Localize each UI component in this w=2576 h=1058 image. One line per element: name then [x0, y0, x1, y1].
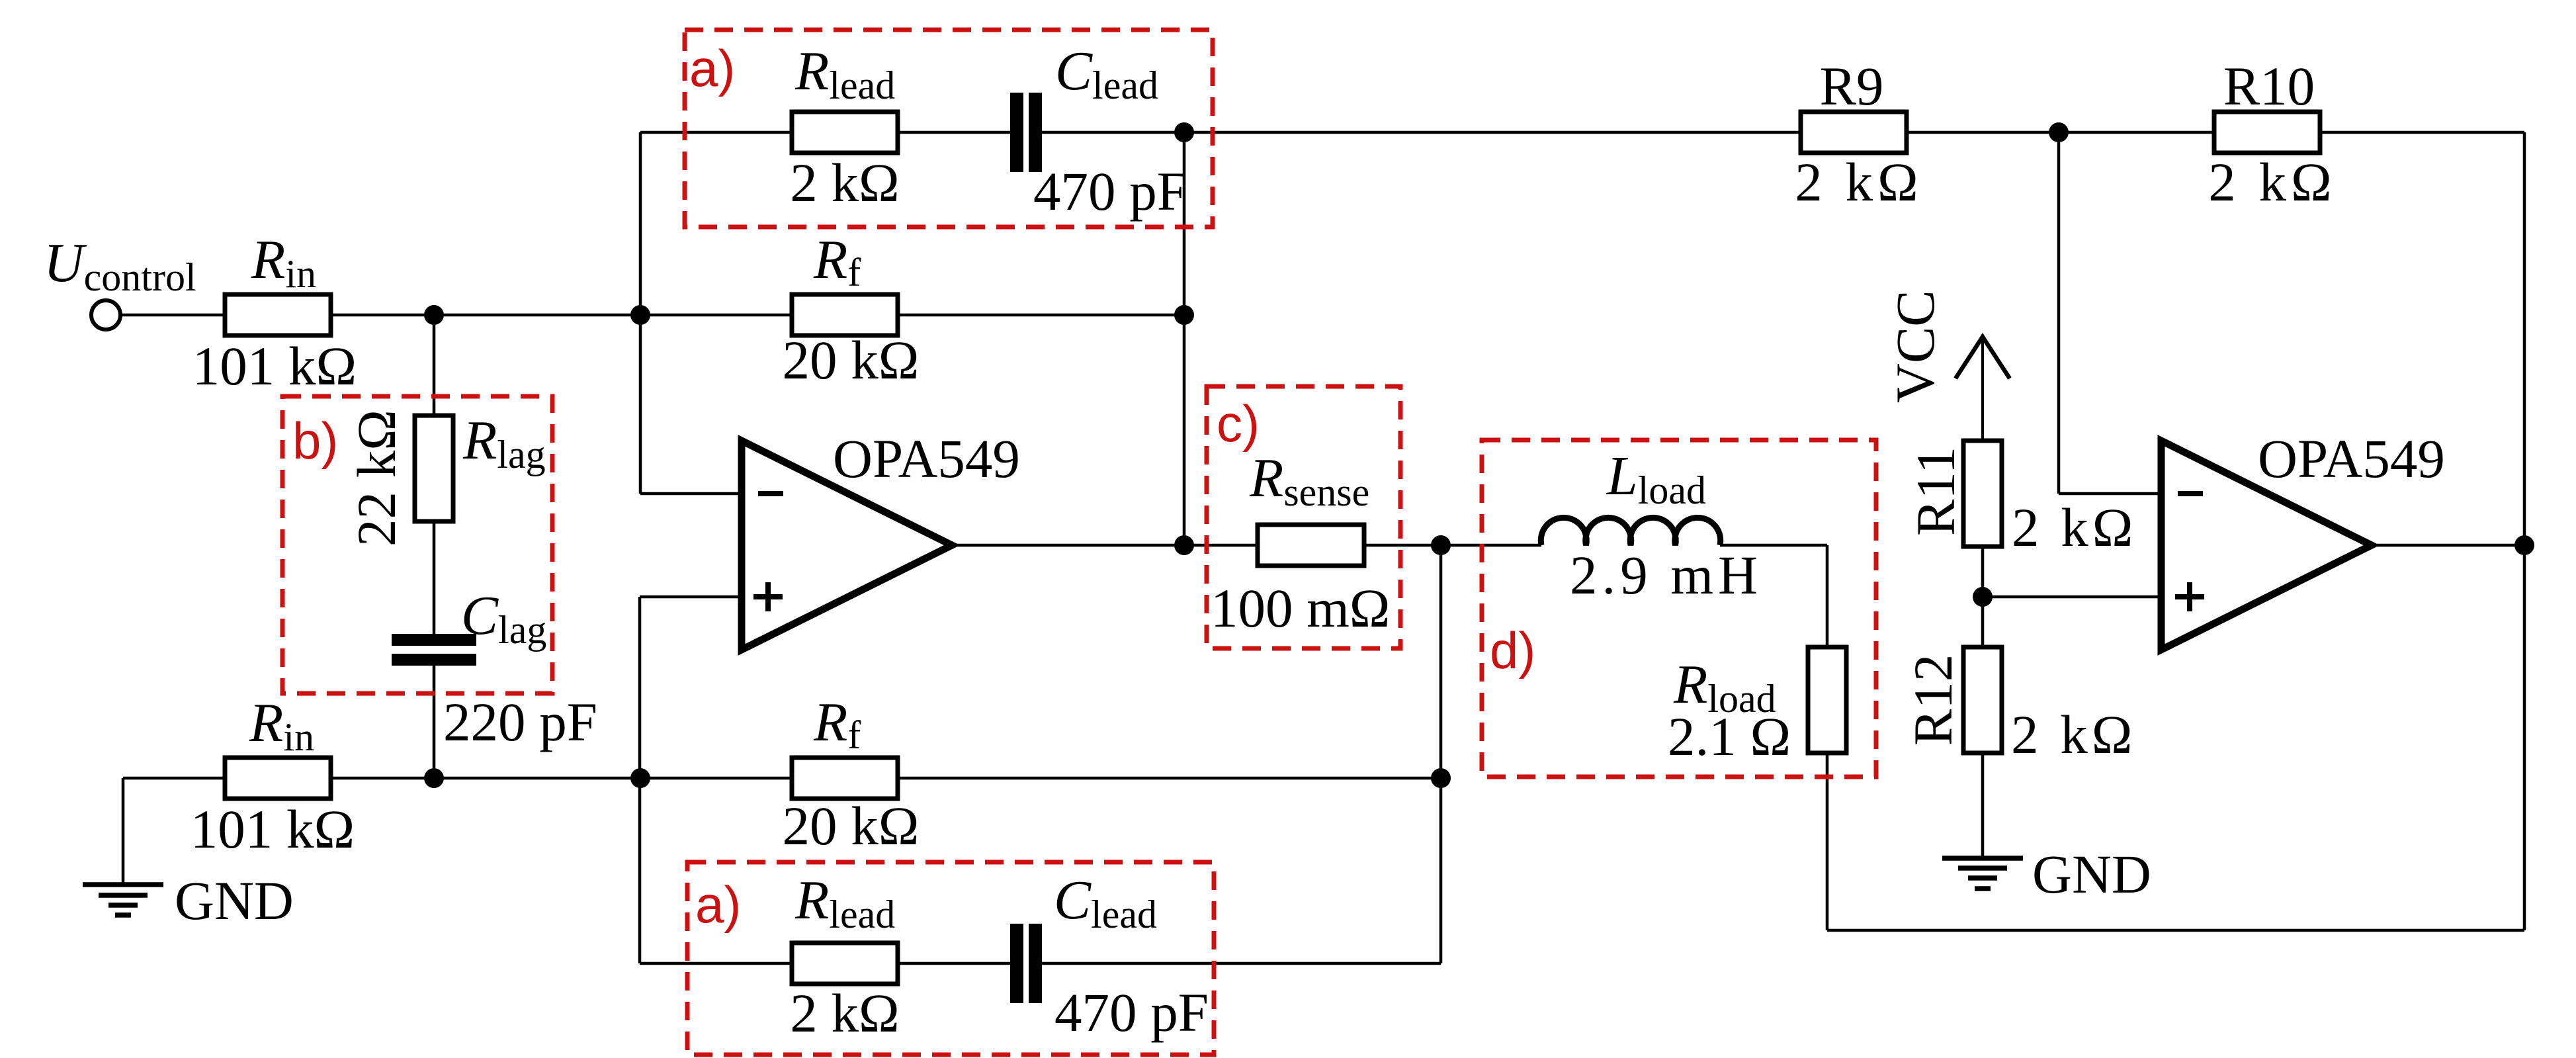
- svg-text:100 mΩ: 100 mΩ: [1211, 578, 1391, 639]
- svg-text:2 kΩ: 2 kΩ: [790, 152, 899, 213]
- svg-text:R10: R10: [2223, 56, 2315, 116]
- svg-text:R11: R11: [1905, 447, 1966, 536]
- svg-text:101 kΩ: 101 kΩ: [191, 799, 355, 860]
- svg-text:101 kΩ: 101 kΩ: [193, 335, 357, 396]
- svg-text:GND: GND: [2032, 844, 2151, 904]
- svg-text:VCC: VCC: [1885, 290, 1946, 403]
- svg-text:2 kΩ: 2 kΩ: [2011, 704, 2136, 765]
- svg-text:2 kΩ: 2 kΩ: [2012, 497, 2137, 558]
- svg-text:R12: R12: [1903, 654, 1963, 746]
- svg-text:d): d): [1490, 621, 1535, 680]
- svg-text:2.1 Ω: 2.1 Ω: [1668, 706, 1791, 767]
- svg-text:c): c): [1217, 394, 1260, 453]
- svg-text:22 kΩ: 22 kΩ: [346, 410, 407, 547]
- svg-text:2 kΩ: 2 kΩ: [1795, 152, 1922, 212]
- svg-text:20 kΩ: 20 kΩ: [783, 795, 920, 856]
- svg-text:220 pF: 220 pF: [443, 691, 597, 752]
- svg-text:GND: GND: [175, 870, 294, 931]
- svg-text:470 pF: 470 pF: [1054, 982, 1209, 1043]
- svg-text:2.9 mH: 2.9 mH: [1570, 545, 1762, 605]
- svg-text:OPA549: OPA549: [2258, 428, 2445, 489]
- svg-text:a): a): [689, 39, 735, 97]
- svg-text:2 kΩ: 2 kΩ: [790, 983, 899, 1043]
- svg-text:b): b): [292, 412, 338, 470]
- svg-text:OPA549: OPA549: [833, 428, 1020, 489]
- svg-text:R9: R9: [1820, 56, 1884, 116]
- svg-text:20 kΩ: 20 kΩ: [783, 330, 920, 390]
- svg-text:a): a): [695, 875, 741, 934]
- svg-text:470 pF: 470 pF: [1033, 161, 1187, 222]
- svg-text:2 kΩ: 2 kΩ: [2208, 152, 2336, 212]
